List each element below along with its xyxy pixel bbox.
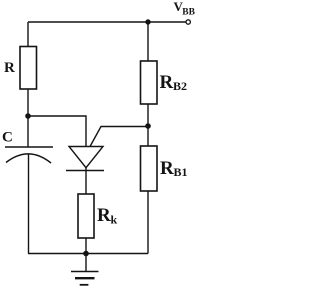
- resistor RB2: [141, 61, 158, 104]
- svg-text:B2: B2: [173, 79, 187, 93]
- label VBB: [174, 0, 196, 18]
- node bottom junction: [83, 251, 89, 257]
- label RB1: [160, 158, 188, 179]
- wire left rail lower: [28, 155, 30, 254]
- wire Rk lead: [85, 238, 87, 254]
- ground: [71, 254, 99, 285]
- resistor R: [20, 47, 37, 90]
- label RB2: [160, 72, 188, 93]
- node gate junction: [145, 123, 151, 129]
- cathode bar: [66, 170, 104, 172]
- wire cathode lead: [85, 168, 87, 194]
- wire top rail: [28, 21, 186, 23]
- wire right rail upper: [147, 22, 149, 61]
- label Rk: [97, 205, 118, 227]
- svg-text:R: R: [160, 72, 174, 93]
- wire anode branch: [28, 116, 86, 146]
- terminal VBB: [186, 20, 190, 24]
- svg-text:R: R: [160, 158, 174, 179]
- node top junction: [145, 19, 150, 24]
- svg-text:B1: B1: [174, 165, 188, 179]
- capacitor C: [5, 147, 53, 163]
- svg-text:R: R: [4, 60, 15, 76]
- wire bottom rail: [28, 253, 148, 255]
- wire left rail mid: [27, 89, 29, 147]
- wire gate: [90, 127, 148, 147]
- node A junction: [25, 113, 31, 119]
- svg-text:BB: BB: [182, 8, 195, 18]
- wire right rail mid: [147, 104, 149, 146]
- svg-text:k: k: [111, 213, 118, 227]
- wire left rail upper: [27, 22, 29, 47]
- resistor RB1: [141, 146, 158, 191]
- resistor Rk: [78, 194, 94, 238]
- transistor PUT anode-gate triangle: [69, 147, 103, 168]
- wire right rail lower: [147, 191, 149, 254]
- svg-text:C: C: [2, 130, 13, 146]
- svg-text:R: R: [97, 205, 111, 226]
